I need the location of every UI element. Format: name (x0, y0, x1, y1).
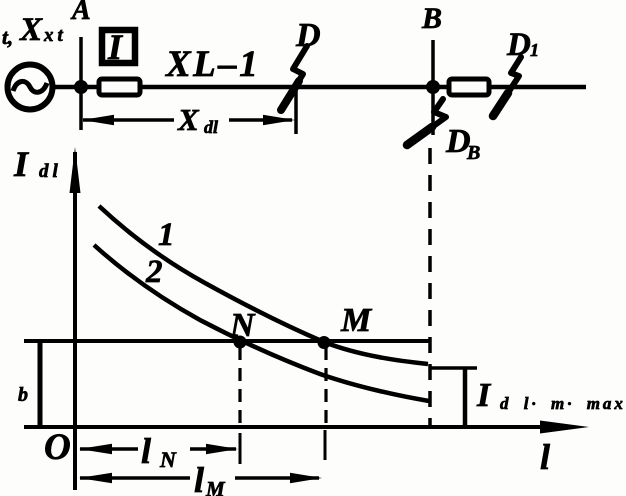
x-axis l (24, 421, 589, 434)
svg-text:N: N (229, 307, 256, 344)
svg-text:dl: dl (39, 161, 62, 182)
dimension lM (79, 473, 322, 483)
svg-text:N: N (159, 447, 177, 472)
fault D1 (493, 57, 521, 116)
dimension label lN (141, 431, 177, 472)
svg-text:d l· m· max: d l· m· max (500, 394, 626, 413)
svg-text:2: 2 (145, 254, 163, 290)
dashed projection from N (238, 347, 241, 464)
svg-text:I: I (107, 27, 124, 67)
y-axis label Idl (13, 144, 62, 184)
dimension b (38, 342, 43, 426)
busbar A (79, 37, 83, 130)
dimension Idl m max arrow (463, 369, 468, 426)
node A (74, 80, 88, 94)
svg-text:t,: t, (2, 25, 13, 49)
svg-text:1: 1 (530, 40, 539, 60)
svg-text:b: b (18, 384, 28, 406)
relay I (102, 27, 135, 67)
dimension lN (79, 444, 238, 454)
node N (234, 336, 247, 349)
svg-text:l: l (141, 431, 151, 471)
svg-text:l: l (540, 437, 550, 477)
node M (318, 336, 331, 349)
y-axis Idl (70, 147, 81, 490)
svg-text:D: D (506, 27, 531, 63)
svg-text:B: B (466, 142, 480, 164)
svg-text:M: M (205, 477, 226, 496)
svg-text:A: A (70, 0, 91, 26)
node B (426, 80, 440, 94)
fault label D1 (506, 27, 539, 63)
svg-text:dl: dl (204, 117, 218, 137)
curve 1 (99, 206, 428, 364)
fault DB (407, 99, 446, 145)
dimension label lM (194, 460, 226, 496)
fault D (281, 46, 307, 110)
svg-text:I: I (13, 144, 30, 184)
svg-text:XL–1: XL–1 (165, 44, 260, 85)
svg-text:1: 1 (158, 217, 175, 253)
dashed projection from M (325, 347, 326, 460)
busbar B (431, 40, 435, 135)
fault label DB (445, 123, 480, 164)
dashed projection line from B (428, 148, 432, 427)
svg-text:I: I (476, 377, 492, 414)
svg-text:D: D (295, 17, 321, 54)
level tick Idl m max (429, 366, 477, 370)
wire A to B (line XL-1) (81, 85, 433, 90)
svg-text:xt: xt (43, 25, 67, 46)
svg-text:l: l (194, 460, 204, 496)
label Idl m max (476, 377, 626, 414)
svg-text:X: X (177, 102, 200, 137)
CT element on line at B (449, 79, 489, 95)
curve 2 (94, 245, 429, 401)
generator G (8, 65, 53, 110)
svg-text:O: O (44, 427, 71, 468)
wire B to line end (433, 85, 586, 90)
pickup level line (24, 339, 429, 343)
generator label t,Xxt (2, 12, 67, 49)
wire G to A (50, 85, 81, 90)
dimension Xdl (82, 89, 296, 134)
svg-text:B: B (421, 2, 442, 35)
svg-text:X: X (19, 12, 43, 48)
CT element on line at A (99, 79, 140, 95)
svg-text:M: M (340, 302, 373, 339)
dimension label Xdl (177, 102, 218, 137)
